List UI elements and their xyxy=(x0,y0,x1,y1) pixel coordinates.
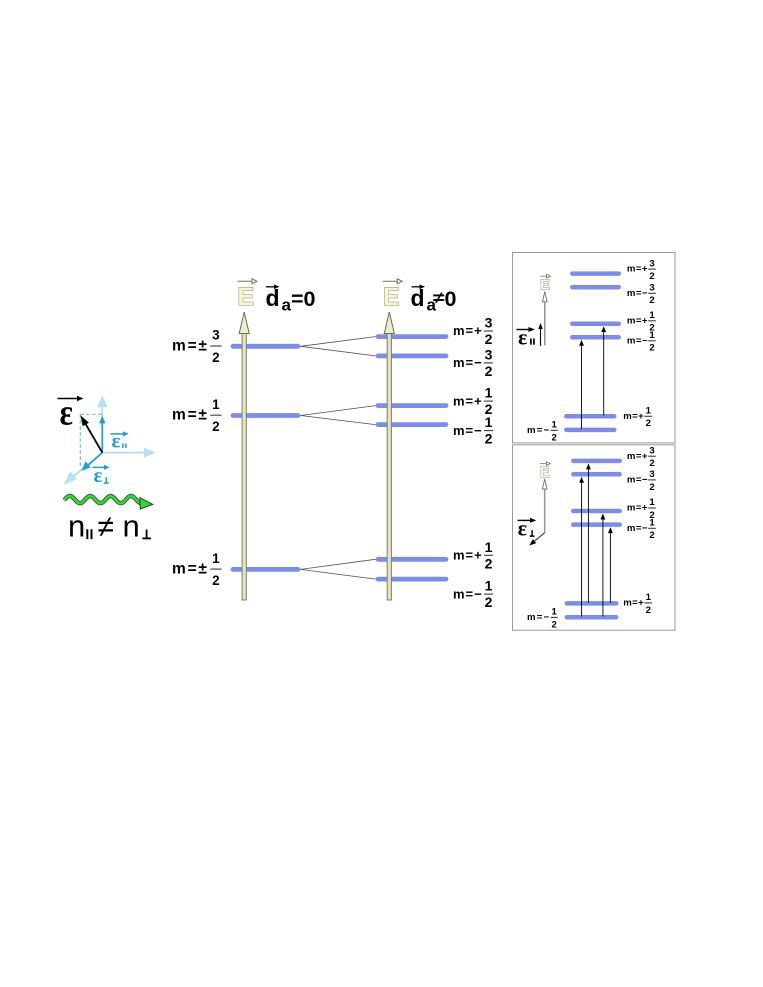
svg-text:3: 3 xyxy=(649,445,654,456)
svg-text:n: n xyxy=(123,509,140,544)
pale axis horizontal xyxy=(102,447,155,457)
svg-text:2: 2 xyxy=(485,594,493,610)
splitting connector ground lower xyxy=(301,569,376,579)
label m=±3/2 xyxy=(172,328,222,365)
cyan component arrow epsilon-perp (diagonal) xyxy=(82,453,103,471)
svg-text:1: 1 xyxy=(212,551,220,566)
panel2 label E xyxy=(540,462,551,481)
label epsilon-perp (cyan) xyxy=(93,463,110,487)
svg-text:2: 2 xyxy=(485,363,493,379)
panel2 E-field arrow (gray, open head, with perp tick) xyxy=(529,479,547,546)
cyan component arrow epsilon-parallel (vertical) xyxy=(99,416,105,453)
svg-text:2: 2 xyxy=(649,343,654,354)
svg-text:ε: ε xyxy=(60,392,73,433)
panel1 label m=+1/2 xyxy=(627,310,656,334)
svg-text:m=−: m=− xyxy=(627,288,648,299)
svg-text:2: 2 xyxy=(649,458,654,469)
label m=-1/2 (split) xyxy=(453,414,493,447)
svg-text:m=±: m=± xyxy=(172,407,209,424)
level bar ground m=-1/2 (split) xyxy=(378,577,446,582)
svg-text:m=+: m=+ xyxy=(627,503,648,514)
level bar m=-3/2 (split) xyxy=(378,353,446,358)
svg-text:m=+: m=+ xyxy=(623,411,644,422)
label n-parallel not-equal n-perp xyxy=(68,509,151,544)
svg-text:1: 1 xyxy=(212,397,220,412)
splitting connector ground upper xyxy=(301,559,376,569)
svg-text:a: a xyxy=(282,296,292,315)
svg-text:m=−: m=− xyxy=(527,425,550,436)
svg-text:2: 2 xyxy=(212,350,220,365)
svg-text:1: 1 xyxy=(485,539,493,555)
svg-text:ε: ε xyxy=(518,515,527,540)
panel1 small black arrow xyxy=(538,323,543,346)
svg-text:E: E xyxy=(540,278,550,294)
label ground m=+1/2 (split) xyxy=(453,539,493,572)
label m=+1/2 (split) xyxy=(453,385,493,418)
label d_a=0 xyxy=(266,285,316,315)
panel2 label ground m=-1/2 xyxy=(527,607,558,631)
dashed projection line horizontal xyxy=(80,413,101,415)
black E-field vector xyxy=(81,415,103,452)
svg-text:m=+: m=+ xyxy=(453,548,483,563)
panel1 label E xyxy=(540,274,551,293)
svg-text:m=+: m=+ xyxy=(627,315,648,326)
splitting connector 3/2 lower xyxy=(301,346,376,356)
svg-text:1: 1 xyxy=(649,310,655,321)
svg-text:3: 3 xyxy=(649,258,654,269)
label E (d_a≠0 column) xyxy=(383,279,403,311)
panel2 sigma transition +1/2 to -1/2 xyxy=(608,527,613,603)
svg-text:m=+: m=+ xyxy=(627,264,648,275)
level bar m=-1/2 (split) xyxy=(378,422,446,427)
svg-text:m=+: m=+ xyxy=(623,598,644,609)
panel1 label ground m=-1/2 xyxy=(527,420,558,444)
svg-text:2: 2 xyxy=(485,331,493,347)
panel2 level m=+1/2 xyxy=(573,509,619,514)
svg-text:3: 3 xyxy=(485,346,493,362)
panel2 level m=-1/2 xyxy=(573,522,619,527)
svg-text:E: E xyxy=(383,283,400,311)
svg-text:2: 2 xyxy=(646,418,651,429)
svg-text:m=−: m=− xyxy=(527,612,550,623)
panel1 label ground m=+1/2 xyxy=(623,406,652,430)
level bar ground m=±1/2 (unsplit) xyxy=(233,567,298,572)
svg-text:1: 1 xyxy=(649,518,655,529)
level bar m=±1/2 (unsplit) xyxy=(233,413,298,418)
svg-text:ε: ε xyxy=(94,463,103,487)
level bar m=+3/2 (split) xyxy=(378,334,446,339)
panel2 label m=-1/2 xyxy=(627,518,656,542)
panel1 pi transition +1/2 to +1/2 xyxy=(601,326,606,415)
svg-text:2: 2 xyxy=(485,431,493,447)
svg-text:ε: ε xyxy=(518,324,527,349)
splitting connector 1/2 lower xyxy=(301,416,376,425)
svg-text:m=−: m=− xyxy=(453,355,483,370)
panel2 sigma transition -1/2 to +1/2 xyxy=(601,514,606,617)
svg-text:m=±: m=± xyxy=(172,561,209,578)
svg-text:3: 3 xyxy=(485,315,493,331)
splitting connector 3/2 upper xyxy=(301,337,376,347)
panel2 sigma transition -1/2 to -3/2 xyxy=(579,477,584,617)
panel2 label m=+1/2 xyxy=(627,497,656,521)
svg-text:d: d xyxy=(411,285,425,311)
panel1 label epsilon-parallel xyxy=(517,324,535,349)
panel2 ground level m=-1/2 xyxy=(567,615,616,620)
panel2 label ground m=+1/2 xyxy=(623,592,652,616)
E-field arrow (d_a=0 column) xyxy=(239,312,249,600)
svg-text:2: 2 xyxy=(212,573,220,588)
svg-text:1: 1 xyxy=(485,414,493,430)
svg-text:m=±: m=± xyxy=(172,338,209,355)
level bar ground m=+1/2 (split) xyxy=(378,557,446,562)
svg-text:2: 2 xyxy=(649,482,654,493)
panel2 ground level m=+1/2 xyxy=(567,601,616,606)
svg-text:2: 2 xyxy=(649,271,654,282)
panel1 E-field arrow (gray, open head) xyxy=(543,292,548,346)
svg-text:m=+: m=+ xyxy=(453,393,483,408)
panel1 level m=-1/2 xyxy=(572,335,618,340)
label m=±1/2 xyxy=(172,397,222,434)
label ground m=-1/2 (split) xyxy=(453,578,493,611)
panel1 level m=+1/2 xyxy=(572,321,618,326)
panel2 sigma transition +1/2 to +3/2 xyxy=(586,463,591,603)
label ground m=±1/2 xyxy=(172,551,222,588)
panel2 label epsilon-perp xyxy=(518,515,537,540)
svg-text:n: n xyxy=(68,509,85,544)
svg-text:2: 2 xyxy=(646,605,651,616)
svg-text:2: 2 xyxy=(212,419,220,434)
panel1 label m=-3/2 xyxy=(627,283,656,307)
svg-text:=0: =0 xyxy=(291,287,316,311)
svg-text:a: a xyxy=(427,296,437,315)
svg-text:1: 1 xyxy=(649,497,655,508)
svg-text:ε: ε xyxy=(112,429,121,453)
svg-text:3: 3 xyxy=(649,283,654,294)
panel box pi transitions xyxy=(513,253,676,443)
panel box sigma transitions xyxy=(513,445,676,630)
svg-text:m=+: m=+ xyxy=(627,451,648,462)
svg-text:≠: ≠ xyxy=(98,511,114,544)
label m=-3/2 (split) xyxy=(453,346,493,379)
pale axis vertical xyxy=(97,396,107,453)
panel1 level m=+3/2 xyxy=(572,271,618,276)
panel2 label m=+3/2 xyxy=(627,445,656,469)
svg-text:0: 0 xyxy=(445,287,457,311)
svg-text:E: E xyxy=(238,283,255,311)
svg-text:m=−: m=− xyxy=(627,475,648,486)
level bar m=+1/2 (split) xyxy=(378,403,446,408)
pale axis diagonal xyxy=(64,453,103,485)
level bar m=±3/2 (unsplit) xyxy=(233,344,298,349)
svg-text:1: 1 xyxy=(485,578,493,594)
splitting connector 1/2 upper xyxy=(301,406,376,416)
svg-text:2: 2 xyxy=(485,555,493,571)
light wave (green squiggle arrow) xyxy=(64,496,153,509)
svg-text:m=−: m=− xyxy=(627,523,648,534)
panel2 level m=+3/2 xyxy=(573,459,619,464)
svg-text:m=−: m=− xyxy=(453,423,483,438)
panel1 ground level m=-1/2 xyxy=(566,428,614,433)
svg-text:2: 2 xyxy=(552,619,557,630)
svg-text:1: 1 xyxy=(485,385,493,401)
panel2 level m=-3/2 xyxy=(573,472,619,477)
svg-text:m=+: m=+ xyxy=(453,323,483,338)
panel1 ground level m=+1/2 xyxy=(566,414,614,419)
E-field arrow (d_a≠0 column) xyxy=(384,312,394,600)
label epsilon (black) with vector arrow xyxy=(58,392,84,433)
svg-text:1: 1 xyxy=(552,420,558,431)
svg-text:3: 3 xyxy=(212,328,220,343)
label m=+3/2 (split) xyxy=(453,315,493,348)
panel2 label m=-3/2 xyxy=(627,469,656,493)
svg-text:1: 1 xyxy=(646,592,652,603)
svg-text:1: 1 xyxy=(649,330,655,341)
svg-text:E: E xyxy=(540,465,550,481)
label d_a≠0 xyxy=(411,285,457,315)
label epsilon-parallel (cyan) xyxy=(111,429,129,453)
svg-text:d: d xyxy=(266,285,280,311)
svg-text:3: 3 xyxy=(649,469,654,480)
svg-text:m=−: m=− xyxy=(627,335,648,346)
svg-text:2: 2 xyxy=(649,295,654,306)
panel1 label m=-1/2 xyxy=(627,330,656,354)
label E (d_a=0 column) xyxy=(237,279,257,311)
svg-text:1: 1 xyxy=(646,406,652,417)
panel1 pi transition -1/2 to -1/2 xyxy=(579,340,584,429)
svg-text:2: 2 xyxy=(552,432,557,443)
svg-text:1: 1 xyxy=(552,607,558,618)
panel1 label m=+3/2 xyxy=(627,258,656,282)
svg-text:2: 2 xyxy=(649,530,654,541)
panel1 level m=-3/2 xyxy=(572,285,618,290)
dashed projection line vertical xyxy=(79,414,81,466)
svg-text:m=−: m=− xyxy=(453,586,483,601)
